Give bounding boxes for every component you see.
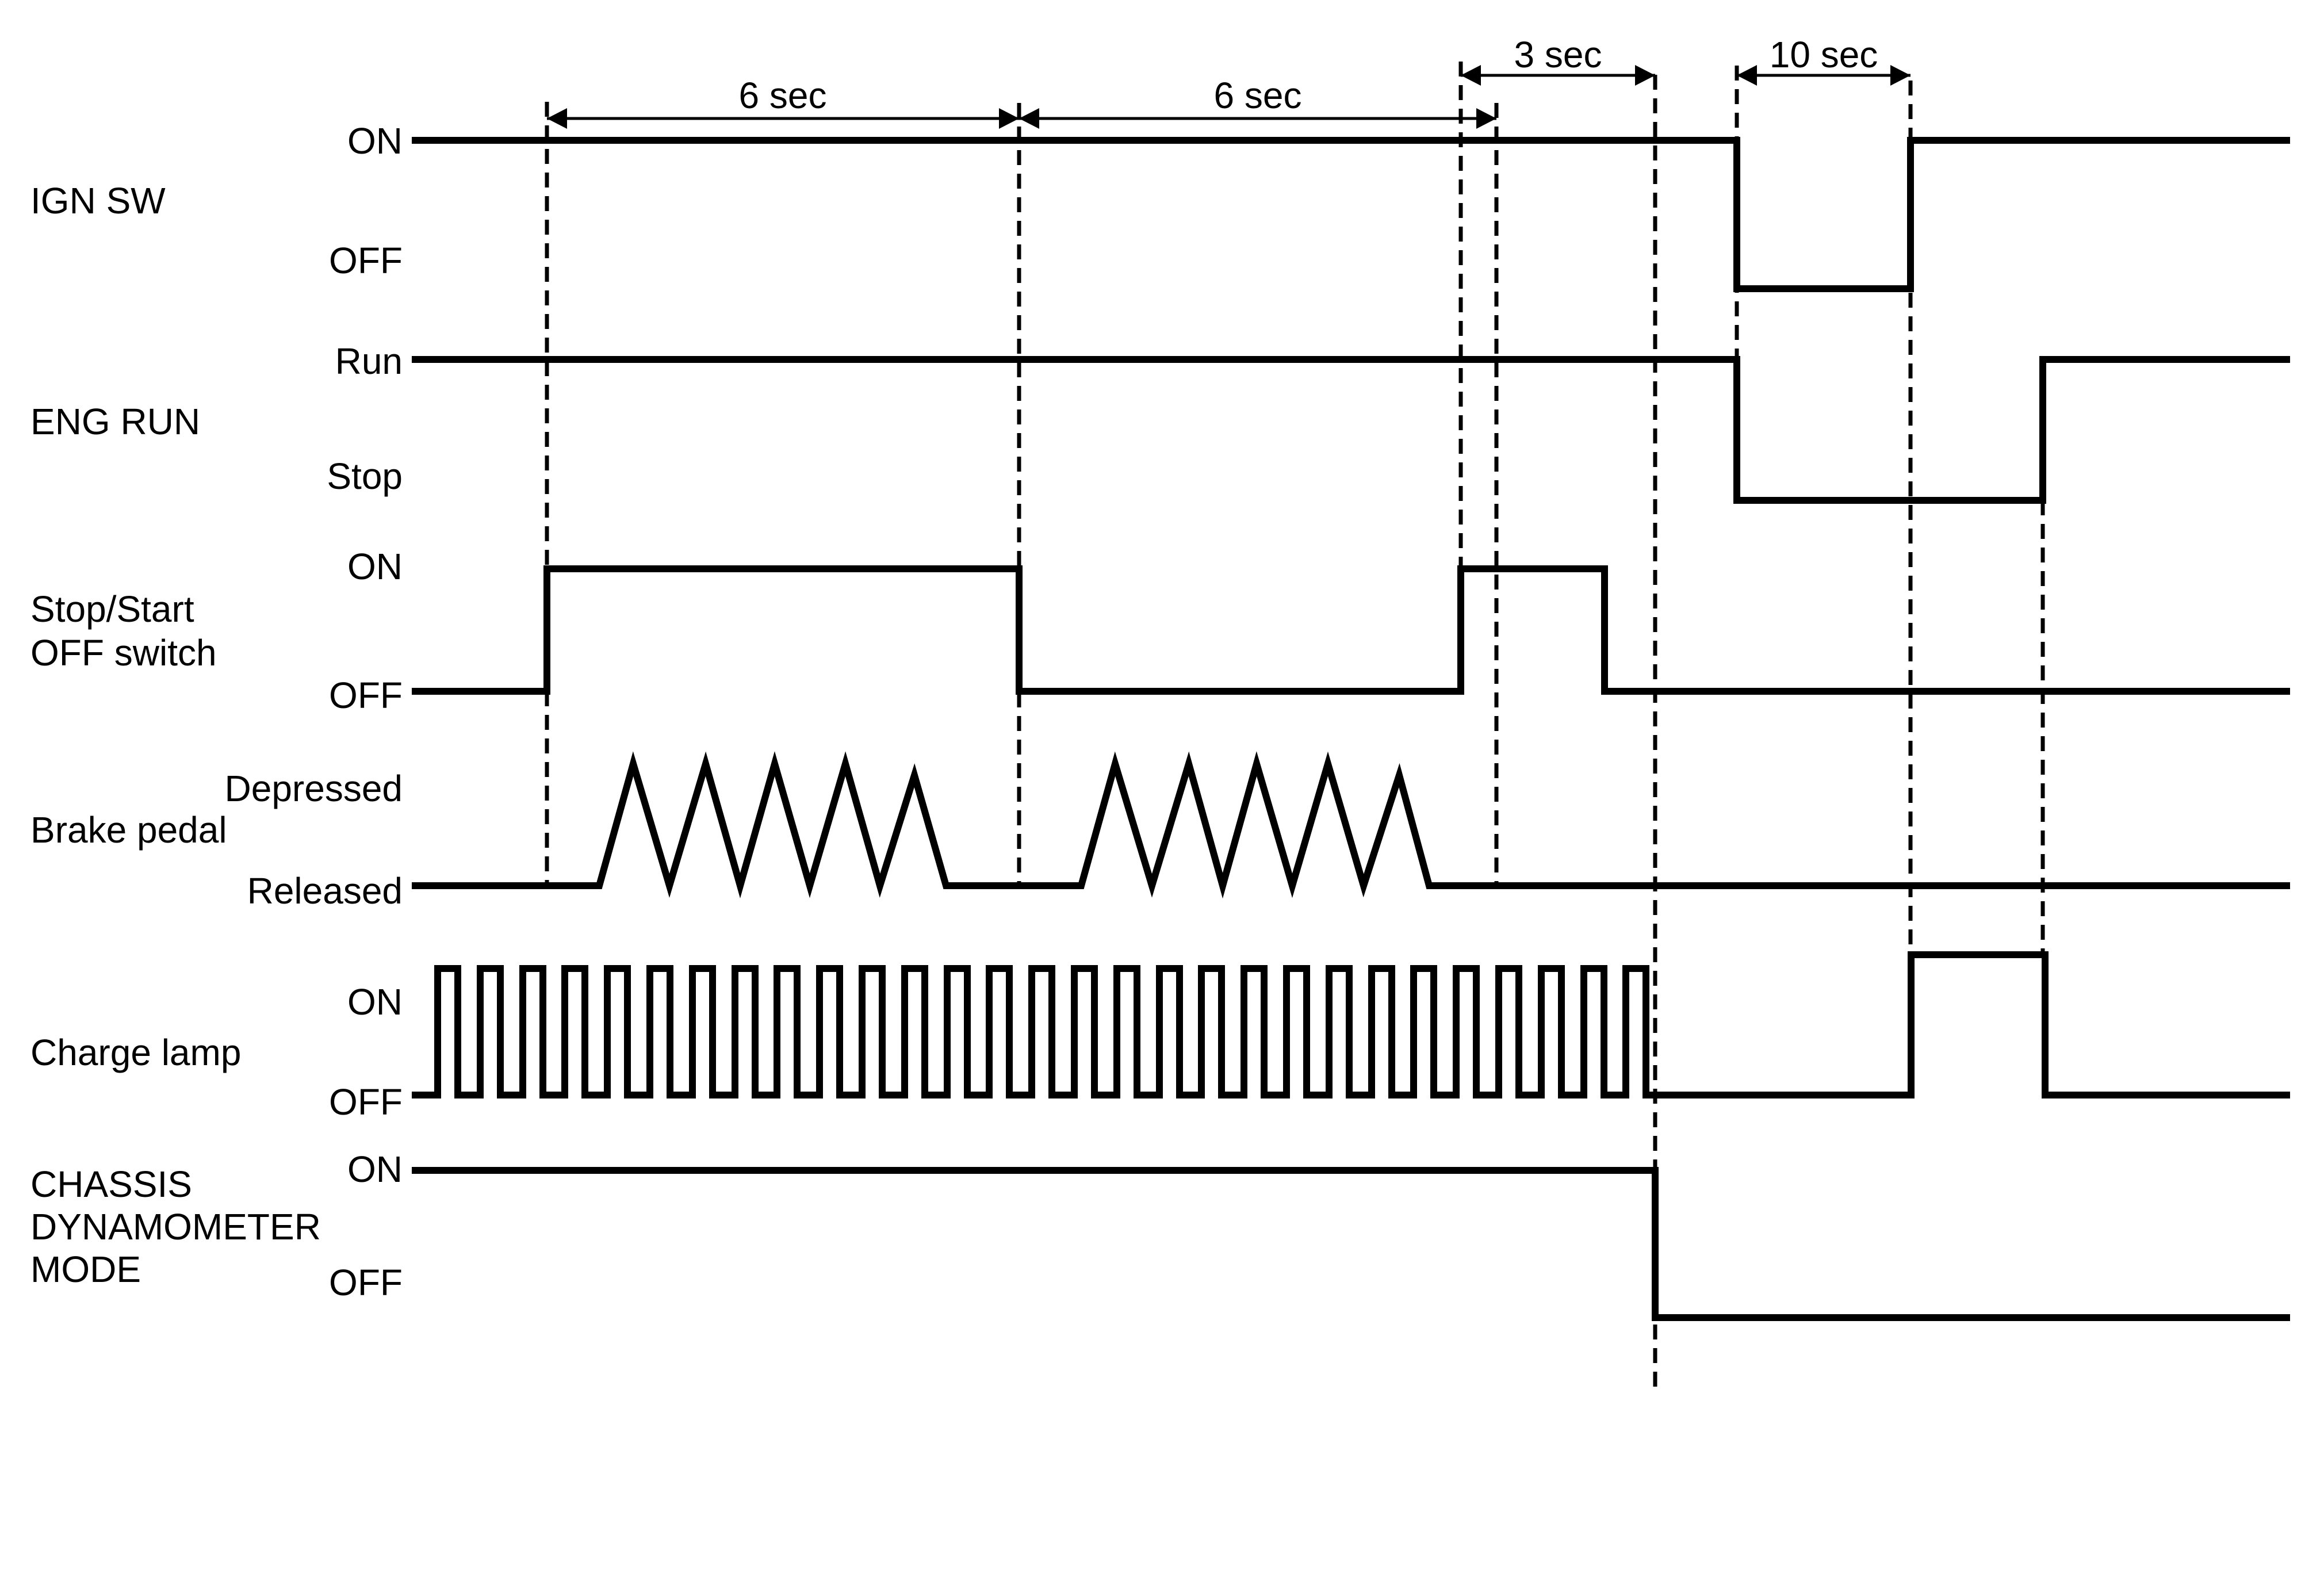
svg-text:3 sec: 3 sec bbox=[1514, 34, 1602, 75]
svg-text:Stop/Start: Stop/Start bbox=[30, 588, 194, 630]
svg-text:Run: Run bbox=[335, 340, 403, 382]
svg-text:6 sec: 6 sec bbox=[1214, 75, 1302, 116]
svg-text:Stop: Stop bbox=[327, 456, 403, 497]
svg-text:OFF: OFF bbox=[329, 240, 403, 281]
svg-text:MODE: MODE bbox=[30, 1249, 141, 1290]
svg-text:ON: ON bbox=[347, 1149, 403, 1190]
svg-text:ON: ON bbox=[347, 981, 403, 1023]
svg-text:ENG RUN: ENG RUN bbox=[30, 401, 200, 442]
svg-text:Brake pedal: Brake pedal bbox=[30, 809, 227, 851]
svg-text:OFF: OFF bbox=[329, 1262, 403, 1303]
svg-text:Charge lamp: Charge lamp bbox=[30, 1032, 241, 1073]
svg-text:ON: ON bbox=[347, 120, 403, 162]
svg-text:6 sec: 6 sec bbox=[739, 75, 827, 116]
svg-text:ON: ON bbox=[347, 546, 403, 587]
svg-text:IGN SW: IGN SW bbox=[30, 180, 166, 221]
svg-text:Depressed: Depressed bbox=[225, 768, 403, 809]
svg-text:OFF: OFF bbox=[329, 1081, 403, 1123]
svg-text:OFF switch: OFF switch bbox=[30, 632, 217, 673]
svg-text:OFF: OFF bbox=[329, 675, 403, 716]
svg-text:10 sec: 10 sec bbox=[1770, 34, 1878, 75]
svg-text:DYNAMOMETER: DYNAMOMETER bbox=[30, 1206, 321, 1247]
svg-text:CHASSIS: CHASSIS bbox=[30, 1163, 192, 1205]
svg-text:Released: Released bbox=[247, 870, 403, 912]
